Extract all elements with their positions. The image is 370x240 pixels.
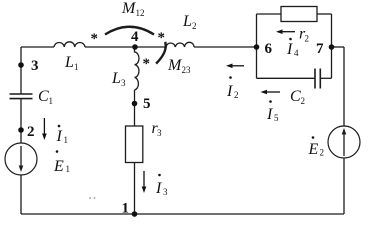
capacitor C2: [315, 69, 320, 89]
svg-text:C: C: [290, 88, 301, 105]
svg-text:5: 5: [274, 113, 279, 123]
resistor r3: [126, 126, 143, 163]
svg-text:L: L: [64, 54, 74, 71]
current arrow I1: [42, 118, 47, 140]
node 2: [18, 127, 24, 133]
current arrow I3: [142, 171, 147, 193]
svg-text:L: L: [182, 13, 192, 30]
svg-text:1: 1: [49, 96, 54, 106]
label I3: [155, 174, 168, 197]
svg-text:2: 2: [320, 148, 325, 158]
wire down to node 7: [331, 14, 333, 47]
node 3: [18, 62, 24, 68]
node 5: [132, 101, 138, 107]
capacitor C1: [10, 94, 33, 99]
wire lower loop right up to node 7: [331, 47, 333, 78]
svg-text:I: I: [286, 41, 293, 58]
svg-text:*: *: [91, 31, 99, 47]
svg-text:2: 2: [305, 34, 310, 44]
wire right rail down to E2: [343, 47, 345, 126]
wire E1 to bottom: [20, 175, 22, 214]
wire C2 to loop right: [320, 77, 331, 79]
svg-text:23: 23: [182, 65, 192, 75]
svg-text:3: 3: [121, 78, 126, 88]
wire node6 up: [256, 14, 258, 47]
svg-text:1: 1: [66, 164, 71, 174]
svg-text:2: 2: [192, 21, 197, 31]
node 4: [132, 44, 138, 50]
svg-text:I: I: [155, 180, 162, 197]
svg-text:1: 1: [122, 201, 130, 217]
svg-text:I: I: [266, 106, 273, 123]
speck marks: [89, 197, 91, 199]
svg-text:4: 4: [294, 48, 299, 58]
svg-text:1: 1: [74, 62, 79, 72]
inductor L2: [166, 42, 194, 47]
mutual arc M12: [105, 27, 154, 35]
node 1: [132, 211, 138, 217]
label I5: [266, 100, 279, 123]
label I1: [56, 125, 69, 145]
label E1: [53, 150, 70, 175]
svg-text:I: I: [226, 83, 233, 100]
svg-text:4: 4: [131, 29, 139, 45]
svg-text:2: 2: [234, 90, 239, 100]
current arrow I4: [276, 29, 295, 34]
label E2: [308, 136, 325, 158]
svg-text:I: I: [56, 128, 63, 145]
svg-text:5: 5: [143, 96, 151, 112]
svg-text:1: 1: [64, 135, 69, 145]
svg-text:E: E: [53, 158, 64, 175]
wire C1 to E1: [20, 99, 22, 143]
svg-text:6: 6: [265, 41, 273, 57]
wire L3 to node 5: [134, 90, 136, 126]
wire left vertical top (node3 to C1): [20, 47, 22, 94]
inductor L3: [135, 47, 140, 90]
svg-text:3: 3: [31, 58, 39, 74]
wire node 4 to L2: [135, 46, 166, 48]
svg-text:*: *: [143, 56, 151, 72]
current arrow I5: [261, 90, 281, 95]
wire node 7 to right rail: [332, 46, 345, 48]
inductor L1: [54, 42, 85, 47]
mutual arc M23: [156, 42, 166, 64]
wire top of r2 loop right: [317, 13, 332, 15]
node 7: [329, 44, 335, 50]
svg-text:E: E: [308, 141, 319, 158]
svg-text:7: 7: [316, 41, 324, 57]
svg-text:12: 12: [136, 8, 145, 18]
wire E2 to bottom rail: [343, 158, 345, 214]
svg-text:2: 2: [301, 96, 306, 106]
wire lower loop bottom: [257, 77, 316, 79]
resistor r2: [281, 7, 317, 22]
wire L2 to node 6: [194, 46, 256, 48]
wire top of r2 loop left: [257, 13, 282, 15]
label I4: [286, 38, 299, 58]
svg-text:C: C: [38, 88, 49, 105]
svg-text:3: 3: [157, 128, 162, 138]
source E2: [328, 126, 360, 158]
svg-text:2: 2: [27, 124, 35, 140]
node 6: [254, 44, 260, 50]
label I2: [226, 76, 239, 100]
wire node6 down: [256, 47, 258, 78]
E2 arrow: [342, 128, 347, 156]
svg-text:3: 3: [163, 187, 168, 197]
E1 arrow: [19, 146, 24, 172]
source E1: [5, 143, 37, 175]
wire L1 to node 4: [85, 46, 135, 48]
wire r3 to node 1: [134, 163, 136, 215]
svg-text:L: L: [111, 70, 121, 87]
svg-text:*: *: [158, 30, 166, 46]
wire bottom rail: [21, 213, 344, 215]
wire top left (corner to L1): [21, 46, 54, 48]
current arrow I2: [226, 64, 244, 69]
